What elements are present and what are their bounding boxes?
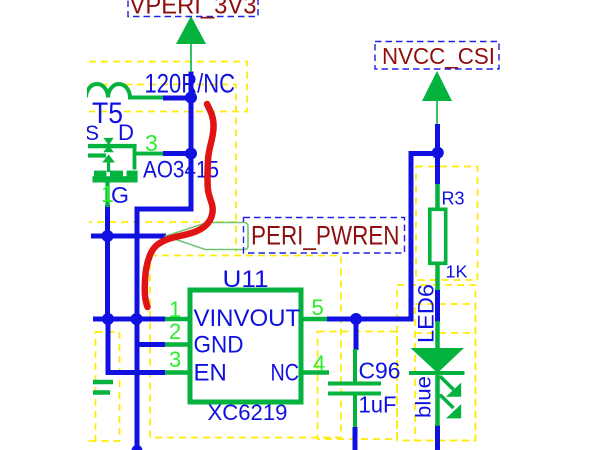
wire PERI_PWREN net (91, 234, 166, 239)
ground stub bars (93, 380, 113, 385)
transistor T5 (AO3415 PMOS) (88, 138, 138, 183)
net label PERI_PWREN (244, 218, 405, 254)
svg-text:R3: R3 (442, 188, 465, 209)
yellow group box C96 (318, 332, 398, 440)
capacitor C96 (328, 349, 381, 427)
svg-text:VOUT: VOUT (234, 305, 301, 332)
transistor T5 drain stub (136, 152, 163, 156)
yellow group box U11 (150, 256, 341, 438)
LED arrow 2 (440, 395, 454, 408)
LED arrow 1 (440, 376, 454, 389)
svg-text:1: 1 (101, 181, 114, 207)
junction GND bottom (132, 445, 143, 450)
wire EN hook (108, 319, 165, 373)
wire gate down (105, 205, 110, 319)
svg-text:VIN: VIN (194, 305, 234, 332)
U11 pin 2 stub (165, 342, 190, 347)
svg-text:2: 2 (169, 319, 181, 344)
wire GND hook down (137, 319, 165, 450)
wire NVCC vertical (435, 124, 440, 184)
wire R3 to LED (435, 290, 440, 323)
U11 pin 1 stub (165, 317, 190, 322)
transistor T5 gate lead (105, 181, 109, 207)
net label PERI_PWREN callout (166, 223, 248, 250)
junction VOUT/C96 (350, 313, 362, 325)
power symbol VPERI_3V3 arrow (176, 16, 206, 44)
svg-text:XC6219: XC6219 (208, 400, 288, 425)
svg-text:NVCC_CSI: NVCC_CSI (382, 43, 495, 69)
svg-text:blue: blue (413, 376, 436, 418)
regulator U11 box (190, 290, 301, 402)
yellow group box 120R/NC (89, 62, 247, 112)
junction gate/PWREN (102, 230, 114, 242)
wire LED bottom (435, 425, 440, 450)
LED LED6 (435, 321, 440, 348)
inductor/ferrite 120R (86, 84, 163, 98)
svg-text:4: 4 (313, 351, 325, 376)
svg-text:5: 5 (312, 295, 324, 320)
page left clip (0, 0, 87, 450)
svg-text:C96: C96 (359, 358, 401, 384)
highlight squiggle (red marker) (145, 104, 214, 307)
svg-text:PERI_PWREN: PERI_PWREN (251, 221, 400, 251)
net label NVCC_CSI (375, 42, 499, 70)
junction at drain/rail (185, 148, 197, 160)
resistor R3 (435, 184, 440, 209)
wire C96 drop (354, 319, 359, 350)
wire VIN horizontal (93, 317, 165, 322)
U11 pin 4 stub (301, 370, 329, 375)
svg-text:LED6: LED6 (414, 284, 439, 343)
svg-text:S: S (85, 122, 99, 145)
junction at coil/rail (185, 92, 197, 104)
yellow group box LED net (397, 285, 476, 441)
svg-text:120R/NC: 120R/NC (145, 69, 236, 99)
U11 pin 5 stub (301, 317, 327, 322)
junction VIN rail (131, 313, 143, 325)
U11 pin 3 stub (165, 370, 190, 375)
svg-text:EN: EN (194, 360, 227, 387)
wire drain to rail (163, 151, 189, 156)
svg-text:GND: GND (194, 332, 244, 359)
yellow group box T5 (89, 85, 236, 253)
wire VOUT to NVCC rail (327, 154, 436, 320)
svg-text:1uF: 1uF (359, 392, 397, 418)
svg-text:NC: NC (271, 360, 300, 387)
svg-text:1K: 1K (446, 262, 468, 282)
junction VIN left (102, 313, 114, 325)
power symbol NVCC_CSI arrow (422, 71, 452, 101)
junction NVCC/R3 (432, 147, 444, 159)
wire coil to rail (163, 96, 188, 101)
svg-text:VPERI_3V3: VPERI_3V3 (130, 0, 257, 20)
yellow group box ground (88, 332, 120, 441)
svg-text:3: 3 (169, 347, 181, 372)
svg-text:3: 3 (145, 130, 158, 156)
yellow group box R3 (416, 167, 478, 281)
wire VPERI rail (137, 72, 191, 320)
svg-text:U11: U11 (223, 266, 269, 293)
svg-text:D: D (118, 120, 134, 145)
yellow group box LED6 (415, 304, 476, 441)
wire C96 bottom (353, 427, 358, 450)
net label VPERI_3V3 (128, 0, 258, 17)
